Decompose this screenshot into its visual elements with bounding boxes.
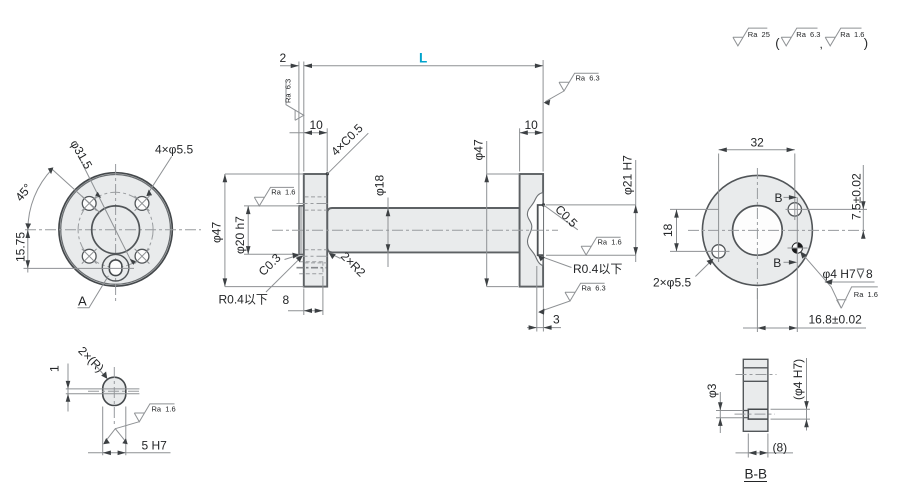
dimension phi20h7	[244, 206, 299, 254]
svg-text:(φ4 H7): (φ4 H7)	[791, 359, 805, 400]
arrow 45deg bottom	[25, 223, 31, 230]
svg-text:1: 1	[48, 365, 62, 372]
dimension phi21H7	[546, 205, 636, 255]
svg-text:φ47: φ47	[210, 222, 224, 243]
dimension 8	[288, 310, 323, 312]
extension lines flange tops for 10 dims	[326, 128, 328, 171]
center dash-dot horizontal	[88, 390, 141, 392]
svg-text:φ3: φ3	[705, 383, 719, 398]
dimension 45deg arc	[28, 169, 53, 230]
extension line 7.5 from hole B	[786, 208, 868, 210]
svg-text:32: 32	[751, 135, 765, 149]
center mark bottom holes	[297, 255, 331, 257]
svg-text:Ra 6.3: Ra 6.3	[576, 74, 600, 83]
phi4 through hole walls	[743, 368, 768, 382]
hole bottom-right	[135, 249, 150, 264]
svg-text:R0.4以下: R0.4以下	[573, 262, 622, 276]
vertical centerline	[113, 367, 115, 425]
phi4 pocket hole	[748, 409, 768, 419]
svg-text:Ra 6.3: Ra 6.3	[582, 284, 606, 293]
svg-text:7.5±0.02: 7.5±0.02	[849, 173, 863, 220]
extension line flange left face up	[303, 62, 305, 172]
svg-text:8: 8	[283, 293, 290, 307]
hub phi20 left	[299, 206, 304, 255]
arrow 45deg top	[48, 167, 54, 174]
dimension L	[304, 65, 543, 67]
svg-text:B-B: B-B	[745, 467, 768, 482]
label R0.4 below-right with leader	[539, 256, 571, 268]
horizontal centerline	[25, 229, 201, 231]
centerline phi4 hole	[736, 374, 777, 376]
extension lines for 3	[537, 266, 544, 332]
depth symbol	[857, 269, 864, 277]
svg-text:B: B	[773, 256, 781, 270]
bore phi21H7 in right flange	[538, 205, 543, 255]
left flange phi47	[304, 174, 327, 287]
surface mark Ra6.3	[781, 28, 817, 46]
horizontal centerline	[688, 229, 867, 231]
svg-text:5 H7: 5 H7	[142, 439, 168, 453]
dimension 1	[67, 364, 69, 412]
dimension (8)	[736, 452, 794, 454]
dimension 32	[719, 149, 795, 151]
vertical centerline	[115, 164, 117, 303]
keyway hole A counterbore	[102, 254, 129, 281]
hub chamfer line	[300, 207, 302, 254]
slot outline 5H7 with 2xR ends	[103, 377, 126, 405]
svg-text:Ra 1.6: Ra 1.6	[271, 188, 295, 197]
svg-text:2×φ5.5: 2×φ5.5	[653, 276, 691, 290]
surface mark Ra6.3 leader to right face line	[545, 73, 598, 102]
right flange phi47	[520, 174, 544, 287]
extension line 32 left / crosshair	[718, 154, 720, 263]
extension line hub left face up	[298, 62, 300, 204]
extension lines for 8	[304, 276, 323, 315]
section line B-B vertical	[796, 197, 798, 332]
label phi4 H7 depth 8 with leader	[802, 253, 875, 308]
flange body phi47	[59, 173, 172, 286]
phi4 H7 hole with quadrant fill	[788, 243, 808, 253]
dimension line 5 H7	[88, 452, 171, 454]
svg-text:Ra 1.6: Ra 1.6	[152, 405, 176, 414]
dimension phi47 left flange	[225, 174, 304, 287]
keyway hole A slot 5H7	[109, 260, 122, 276]
dimension 10 left	[290, 132, 328, 134]
svg-text:Ra 1.6: Ra 1.6	[840, 30, 864, 39]
hub circle phi20	[92, 206, 140, 254]
svg-text:4×φ5.5: 4×φ5.5	[155, 143, 193, 157]
label 2x phi5.5 with leader	[695, 260, 712, 277]
dimension phi31.5 diagonal line	[78, 156, 132, 264]
local section cutout in right flange	[527, 193, 543, 266]
hole B top-right phi5.5	[788, 203, 801, 216]
svg-text:16.8±0.02: 16.8±0.02	[809, 313, 863, 327]
extension lines phi4H7 right	[771, 409, 811, 419]
extension line 32 right	[794, 154, 796, 221]
dimension phi18	[387, 198, 389, 268]
svg-text:Ra 6.3: Ra 6.3	[284, 79, 293, 103]
surface mark Ra6.3 leader lower right	[540, 283, 605, 311]
dimension 3	[527, 327, 561, 329]
svg-text:φ18: φ18	[373, 175, 387, 196]
arrow phi31.5 lower	[130, 259, 136, 265]
surface mark Ra1.6 on phi21 extension	[581, 237, 621, 255]
surface mark Ra1.6 on slot flats with double leader	[105, 422, 140, 443]
dimension phi3	[719, 392, 721, 433]
dimension 15.75	[27, 230, 29, 273]
svg-text:φ21 H7: φ21 H7	[620, 155, 634, 195]
bore phi21H7	[733, 206, 783, 256]
bolt circle phi31.5	[78, 192, 153, 267]
label R0.4 below-left with leader	[266, 257, 302, 292]
svg-text:Ra 25: Ra 25	[748, 30, 770, 39]
svg-text:φ20 h7: φ20 h7	[233, 216, 247, 254]
extension lines (8)	[748, 434, 768, 458]
horizontal centerline	[272, 229, 558, 231]
svg-text:(: (	[775, 36, 780, 51]
svg-text:8: 8	[866, 267, 873, 281]
label 4xC0.5 with leader	[326, 172, 329, 175]
svg-text:L: L	[419, 51, 427, 66]
svg-text:10: 10	[310, 118, 324, 132]
dimension 10 right	[520, 132, 544, 134]
extension lines phi3	[716, 411, 743, 418]
dimension (phi4 H7)	[806, 358, 808, 431]
extension lines 16.8	[756, 288, 758, 332]
svg-text:(8): (8)	[773, 441, 788, 455]
arrow phi31.5 upper	[95, 192, 101, 198]
svg-text:Ra 1.6: Ra 1.6	[598, 238, 622, 247]
dimension 18	[670, 209, 719, 251]
svg-text:Ra 1.6: Ra 1.6	[854, 290, 878, 299]
hidden lines top bolt holes	[305, 197, 327, 210]
hole top-right	[135, 196, 150, 211]
crosshair hole bottom-left	[708, 250, 730, 252]
svg-text:Ra 6.3: Ra 6.3	[796, 30, 820, 39]
svg-text:15.75: 15.75	[14, 232, 28, 262]
svg-text:3: 3	[553, 313, 560, 327]
R center construction line lower	[66, 393, 140, 395]
hole bottom-left phi5.5	[712, 245, 725, 258]
vertical centerline	[756, 168, 758, 302]
surface mark Ra25	[733, 28, 767, 46]
label C0.3 with leader	[285, 255, 298, 259]
surface mark Ra6.3 rotated on flange face line	[286, 81, 304, 121]
R center construction line upper	[66, 388, 140, 390]
center mark top holes	[297, 203, 331, 205]
svg-text:A: A	[78, 294, 87, 309]
section body	[743, 359, 768, 431]
svg-text:R0.4以下: R0.4以下	[219, 293, 268, 307]
svg-text:18: 18	[661, 223, 675, 237]
svg-text:10: 10	[525, 118, 539, 132]
dimension 16.8 +-0.02	[743, 327, 866, 329]
surface mark Ra1.6 on phi20 extension	[254, 187, 294, 206]
label 2xR2 with leader	[331, 254, 341, 259]
hidden lines keyway slot	[299, 262, 323, 274]
dimension 7.5 +-0.02	[862, 165, 864, 237]
extension lines for 5H7	[103, 407, 126, 456]
svg-text:φ47: φ47	[471, 139, 485, 160]
shaft phi18	[327, 208, 519, 252]
svg-text:φ4 H7: φ4 H7	[823, 267, 856, 281]
hole top-left	[82, 196, 97, 211]
center mark keyway	[297, 267, 327, 269]
dimension phi47 right flange	[487, 174, 520, 287]
hidden lines bottom bolt holes	[305, 250, 327, 263]
surface mark Ra1.6 on phi4 leader	[837, 287, 878, 308]
svg-text:): )	[864, 36, 868, 51]
15.75 extension line through hole A	[24, 267, 135, 269]
svg-text:2: 2	[280, 51, 287, 65]
surface mark Ra1.6	[825, 28, 861, 46]
45 deg reference line through top-left hole	[52, 169, 100, 213]
extension lines right flange for 10	[519, 128, 521, 171]
centerline phi3 hole	[735, 413, 776, 415]
label C0.5 with leader	[542, 203, 545, 206]
flange body phi47	[702, 175, 812, 285]
hole bottom-left	[82, 249, 97, 264]
svg-text:B: B	[775, 191, 783, 205]
svg-text:,: ,	[820, 37, 823, 51]
chamfer ring	[61, 175, 171, 285]
phi3 pilot hole walls	[743, 411, 748, 418]
extension line right flange right face up	[542, 60, 544, 172]
dimension 2	[280, 65, 299, 67]
